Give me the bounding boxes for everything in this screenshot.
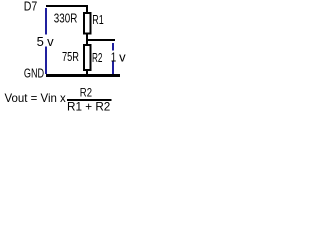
wire R1 bottom to junction: [86, 35, 88, 42]
svg-text:R2: R2: [80, 86, 92, 100]
svg-text:1: 1: [111, 49, 117, 64]
junction wire to 1 v probe: [86, 39, 115, 41]
svg-text:75R: 75R: [62, 49, 79, 64]
node D7: [24, 0, 38, 14]
voltmeter probe line 1 v: [112, 43, 114, 74]
wire R2 bottom to ground rail: [86, 71, 88, 74]
formula fraction bar: [67, 99, 112, 101]
svg-text:GND: GND: [24, 66, 44, 81]
svg-text:330R: 330R: [54, 11, 78, 26]
svg-text:D7: D7: [24, 0, 38, 14]
ground rail wire: [46, 74, 120, 77]
resistor R1: [84, 13, 91, 34]
label GND: [24, 66, 44, 81]
resistor R2: [84, 45, 91, 70]
label 5 v: [37, 34, 55, 49]
formula label Vout = Vin x: [5, 91, 66, 105]
value label 75R: [62, 49, 79, 64]
formula numerator R2: [80, 86, 92, 100]
designator label R2: [92, 50, 103, 65]
wire junction to R2 top: [86, 41, 88, 45]
svg-text:Vout = Vin x: Vout = Vin x: [5, 91, 66, 105]
designator label R1: [92, 12, 104, 27]
value label 330R: [54, 11, 78, 26]
svg-text:R1 + R2: R1 + R2: [67, 99, 111, 113]
wire from D7 to R1 top: [46, 5, 88, 13]
svg-text:R2: R2: [92, 50, 103, 65]
label 1 v: [111, 49, 126, 64]
svg-text:v: v: [119, 49, 126, 64]
svg-text:5: 5: [37, 34, 44, 49]
svg-text:v: v: [47, 34, 54, 49]
formula denominator R1 + R2: [67, 99, 111, 113]
voltmeter probe line 5 v: [45, 8, 47, 74]
svg-text:R1: R1: [92, 12, 104, 27]
